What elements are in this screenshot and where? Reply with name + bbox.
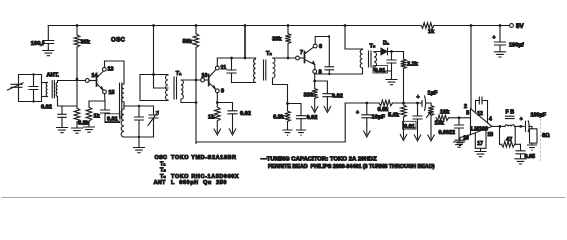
capacitor 0.02 (Q3 emitter bypass) xyxy=(323,94,332,97)
wire to 0.02 Q3 xyxy=(315,81,328,93)
capacitor 0.01 (audio filter) xyxy=(417,103,419,116)
resistor 56k (2nd stage bias) xyxy=(193,34,199,48)
ground (330) xyxy=(312,99,318,113)
ground (0.02 Q2) xyxy=(229,121,235,135)
ground (5.6k) xyxy=(400,130,406,141)
wire T3 secondary top to D1 xyxy=(374,51,381,54)
svg-text:5: 5 xyxy=(466,111,469,117)
svg-text:10: 10 xyxy=(202,73,208,79)
resistor 39k (3rd stage bias) xyxy=(285,34,291,44)
ground (1k Q2) xyxy=(214,121,220,135)
svg-text:18: 18 xyxy=(488,132,494,138)
svg-text:10k: 10k xyxy=(435,121,445,127)
transformer OSC core xyxy=(120,83,122,118)
capacitor 0.01 (detector filter) xyxy=(391,52,393,60)
svg-text:T₂: T₂ xyxy=(160,168,166,174)
svg-text:0.02: 0.02 xyxy=(41,105,52,111)
ground (6.8k) xyxy=(72,128,83,133)
svg-text:ANT.: ANT. xyxy=(47,73,60,79)
svg-text:+: + xyxy=(493,35,496,41)
svg-text:T₃: T₃ xyxy=(370,44,376,50)
diode D1 detector xyxy=(381,48,387,55)
wire pin15 down xyxy=(104,94,107,110)
resistor 2.2k (detector load) xyxy=(401,59,407,69)
svg-text:13: 13 xyxy=(108,67,114,73)
op-amp U1 LM389 triangle xyxy=(471,109,493,135)
capacitor (amp bypass bridge) xyxy=(476,100,488,102)
svg-text:0.02: 0.02 xyxy=(307,115,318,121)
wire pin11 up to tank xyxy=(216,58,218,66)
capacitor 0.02 (AGC bypass) xyxy=(297,116,306,119)
svg-text:10k: 10k xyxy=(440,110,450,116)
resistor 6.8k (mixer base bias lower) xyxy=(76,79,78,108)
transformer T3 secondary xyxy=(374,52,377,67)
capacitor 0.02 (Q2 emitter bypass) xyxy=(228,111,237,114)
svg-text:0.01: 0.01 xyxy=(107,116,118,122)
pin 9 terminal xyxy=(215,89,219,93)
wire amp output xyxy=(492,125,505,127)
ground (0.02 Q3) xyxy=(324,100,330,113)
variable capacitor (tuning gang B) xyxy=(153,106,155,137)
wire audio/AGC bus xyxy=(345,102,422,104)
resistor 1k (supply decoupling, in rail) xyxy=(421,23,434,29)
transformer T2 primary xyxy=(254,59,256,83)
ground (0.02 AGC) xyxy=(297,130,306,135)
svg-text:—TUNING CAPACITOR: TOKO 2A 20H: —TUNING CAPACITOR: TOKO 2A 20HDZ xyxy=(261,157,377,163)
junction dots on rail xyxy=(76,24,79,27)
capacitor (ANT fixed) xyxy=(33,75,35,87)
svg-text:ANT: ANT xyxy=(154,180,167,186)
svg-text:5V: 5V xyxy=(516,23,524,30)
ground (left 100uF) xyxy=(43,51,54,56)
svg-text:T₁: T₁ xyxy=(160,161,166,167)
capacitor 100uF (supply filter right) xyxy=(499,26,501,42)
svg-text:100μf: 100μf xyxy=(509,43,524,49)
wire Q1 collector loop to OSC coil xyxy=(105,61,125,84)
transformer T3 primary xyxy=(360,50,362,69)
ground (1k mixer) xyxy=(84,127,95,132)
wire rail to T1 (riser x153.5) xyxy=(154,26,169,89)
pin 15 terminal xyxy=(103,90,107,94)
transformer ANT core xyxy=(52,81,54,98)
label 0.01 boxed (audio) xyxy=(403,121,417,129)
svg-text:T₁: T₁ xyxy=(176,71,182,77)
wire OSC tank to ground xyxy=(138,137,140,147)
svg-text:47: 47 xyxy=(506,137,512,143)
wire AGC riser left xyxy=(195,80,197,144)
wire ANT secondary bottom xyxy=(58,97,78,107)
svg-text:+: + xyxy=(417,95,420,101)
wire rail to T3 xyxy=(345,26,363,50)
svg-text:1k: 1k xyxy=(428,29,435,35)
capacitor 0.02 (ANT return bypass) xyxy=(61,106,63,114)
wire pin8 bottom run to T3 xyxy=(315,72,363,75)
capacitor 0.05 (zobel) xyxy=(515,144,520,150)
pin 10 terminal xyxy=(201,78,205,82)
ground (pin17) xyxy=(475,152,486,157)
ground (0.01 audio) xyxy=(414,130,420,141)
resistor 6.8k (AGC series) xyxy=(379,100,393,106)
svg-text:TOKO RHC-1A5D060X: TOKO RHC-1A5D060X xyxy=(171,174,239,180)
capacitor (T3 tank) xyxy=(328,37,330,67)
wire rail to amp V+ xyxy=(470,26,472,109)
svg-text:D₁: D₁ xyxy=(383,41,390,47)
ground (pin16) xyxy=(455,140,465,145)
svg-text:+: + xyxy=(520,117,523,123)
wire T1 secondary top to pin10 xyxy=(181,79,201,81)
ground (0.02 ANT) xyxy=(57,128,68,133)
svg-text:39k: 39k xyxy=(272,37,282,43)
wire T2 secondary bottom to AGC node xyxy=(273,78,288,104)
pin 8 terminal xyxy=(313,70,317,74)
svg-text:100μF: 100μF xyxy=(531,113,547,119)
wire pin8 down xyxy=(314,74,316,81)
svg-text:TOKO YMD-S2A18BR: TOKO YMD-S2A18BR xyxy=(171,155,237,161)
pin 13 terminal xyxy=(102,67,106,71)
pin 16 ground stub xyxy=(460,135,471,140)
transistor Q1 mixer xyxy=(89,80,96,82)
svg-text:16: 16 xyxy=(463,136,469,142)
loop antenna tank rectangle xyxy=(19,75,42,102)
speaker 8ohm xyxy=(530,129,538,143)
ground (right 100uF) xyxy=(495,52,506,57)
pin 11 terminal xyxy=(215,66,219,70)
svg-text:OSC: OSC xyxy=(155,155,168,161)
wire pin9 down xyxy=(216,93,218,103)
svg-text:4: 4 xyxy=(489,117,492,123)
ferrite bead xyxy=(505,125,515,127)
svg-text:OSC: OSC xyxy=(111,38,125,44)
wire OSC tank top xyxy=(124,105,154,107)
svg-text:2.2k: 2.2k xyxy=(407,62,419,68)
resistor 47 (zobel) xyxy=(500,126,502,144)
transistor Q3 xyxy=(299,57,304,59)
transformer OSC primary xyxy=(122,84,124,102)
label 0.01 boxed (detector) xyxy=(373,66,388,74)
transformer T1 core xyxy=(174,77,177,99)
transistor Q2 xyxy=(205,79,209,81)
wire T1 secondary bottom xyxy=(181,99,196,103)
transformer OSC secondary xyxy=(123,102,125,109)
svg-text:0.02: 0.02 xyxy=(240,111,251,117)
svg-text:6.8k: 6.8k xyxy=(273,115,285,121)
wire T2 tank bottom xyxy=(232,82,256,84)
transformer ANT primary xyxy=(42,82,48,84)
resistor 1k (Q2 emitter) xyxy=(215,107,221,121)
wire ANT secondary top to mixer base xyxy=(58,81,86,83)
resistor 10k (amp input series) xyxy=(436,115,449,121)
resistor 5.6k (audio load) xyxy=(401,105,407,117)
scan artifact dashed line xyxy=(540,119,542,161)
svg-text:11: 11 xyxy=(221,65,227,71)
svg-text:39k: 39k xyxy=(81,40,91,46)
wire pin6 up and right xyxy=(315,37,329,45)
ground (0.0022) xyxy=(454,142,465,147)
svg-text:15: 15 xyxy=(109,90,115,96)
svg-text:56k: 56k xyxy=(183,39,193,45)
ground (detector) xyxy=(386,80,397,85)
capacitor 100uF (speaker coupling) xyxy=(525,121,527,131)
wire AGC feedback loop xyxy=(196,103,345,142)
wire T1 primary loop xyxy=(140,75,168,101)
pin 12 stub xyxy=(475,101,477,113)
svg-text:12: 12 xyxy=(477,111,483,117)
resistor 1k (mixer emitter) xyxy=(86,107,92,121)
svg-text:0.01: 0.01 xyxy=(375,68,386,74)
svg-text:F B: F B xyxy=(506,110,515,116)
svg-text:330: 330 xyxy=(304,93,313,99)
capacitor 100uF (left supply filter) xyxy=(47,26,49,41)
svg-text:6.8k: 6.8k xyxy=(78,121,90,127)
wire pin15 to 1k xyxy=(89,101,105,107)
capacitor 0.0022 (input filter) xyxy=(458,118,460,125)
ground (10uF AGC) xyxy=(364,125,370,137)
capacitor 1uF (audio coupling) xyxy=(421,101,423,107)
svg-text:T₂: T₂ xyxy=(266,51,272,57)
variable capacitor (tuning gang A) xyxy=(11,84,22,87)
resistor 330 (Q3 emitter) xyxy=(312,89,318,99)
capacitor (T2 tank) xyxy=(231,58,233,70)
svg-text:100,f: 100,f xyxy=(31,41,44,47)
wire pin9 to 0.02 xyxy=(217,103,232,111)
wire AGC node to 0.02 xyxy=(288,104,302,116)
wire top supply rail xyxy=(48,25,509,27)
transformer T2 core xyxy=(264,60,266,80)
transformer ANT secondary xyxy=(56,83,57,97)
transformer T1 secondary xyxy=(181,80,183,99)
svg-text:1k: 1k xyxy=(208,115,215,121)
transformer T3 core xyxy=(369,51,372,67)
potentiometer 10k (volume) xyxy=(428,106,434,116)
capacitor 0.01 (osc injection) xyxy=(101,110,110,113)
pin 14 terminal xyxy=(85,79,89,83)
svg-text:1μF: 1μF xyxy=(428,91,439,97)
pin 6 terminal xyxy=(313,44,317,48)
scan artifact bottom line xyxy=(2,197,565,199)
wire rail to T2 (riser x245) xyxy=(244,26,246,59)
label 0.01 boxed (osc injection) xyxy=(105,114,120,122)
capacitor 10uF (AGC filter) xyxy=(366,103,368,114)
resistor 6.8k (AGC load) xyxy=(285,111,291,122)
resistor 39k (mixer base bias) xyxy=(74,35,80,47)
svg-text:6: 6 xyxy=(319,44,322,50)
ground (speaker) xyxy=(528,145,537,150)
svg-text:0.02: 0.02 xyxy=(332,94,343,100)
ground (zobel) xyxy=(515,159,526,164)
svg-text:2: 2 xyxy=(464,104,467,110)
svg-text:8Ω: 8Ω xyxy=(542,133,550,139)
svg-text:0.0022: 0.0022 xyxy=(439,130,456,136)
svg-text:+: + xyxy=(356,110,359,116)
ground (OSC tank) xyxy=(134,148,145,153)
wire T3 secondary bottom xyxy=(374,67,392,71)
svg-text:T₃: T₃ xyxy=(160,174,166,180)
ground (volume pot) xyxy=(428,130,434,141)
svg-text:10μF: 10μF xyxy=(372,115,386,121)
wire OSC tank bottom xyxy=(124,136,154,138)
svg-text:9: 9 xyxy=(221,89,224,95)
svg-text:17: 17 xyxy=(477,141,483,147)
svg-text:8: 8 xyxy=(319,70,322,76)
wire D1 to 2.2k xyxy=(388,51,404,53)
svg-text:1k: 1k xyxy=(94,114,101,120)
pin 17 tab xyxy=(475,129,486,149)
svg-text:FERRITE BEAD PHILIPS 2899-344: FERRITE BEAD PHILIPS 2899-34401 (3 TURNS… xyxy=(268,164,435,170)
svg-text:0.01: 0.01 xyxy=(404,124,415,130)
svg-text:7: 7 xyxy=(300,50,303,56)
ground (6.8k AGC) xyxy=(283,130,292,135)
wire T2 secondary top to pin7 xyxy=(273,57,296,59)
pin 7 terminal xyxy=(296,56,300,60)
svg-text:L 660μH Qu 250: L 660μH Qu 250 xyxy=(171,180,227,186)
wire T2 tank top xyxy=(217,57,255,59)
capacitor (OSC tank fixed) xyxy=(138,106,140,117)
pin 4 stub xyxy=(487,101,489,123)
terminal 5V xyxy=(510,24,514,28)
svg-text:5.6k: 5.6k xyxy=(388,113,400,119)
transformer T2 secondary xyxy=(273,58,276,78)
transformer T1 primary xyxy=(166,75,168,100)
